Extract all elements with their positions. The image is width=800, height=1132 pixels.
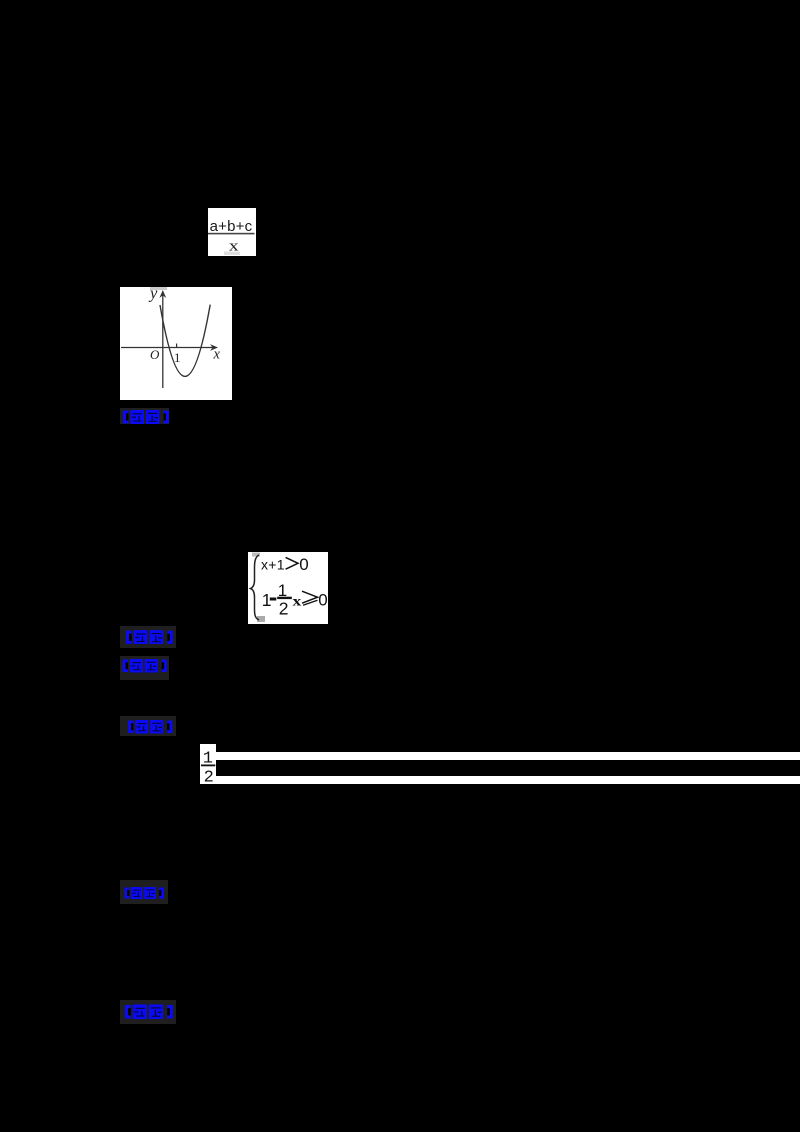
x-axis xyxy=(121,347,215,349)
svg-text:0: 0 xyxy=(318,591,327,610)
blue tag 4 xyxy=(120,716,176,736)
svg-text:0: 0 xyxy=(299,555,308,574)
fraction 1/2 image xyxy=(200,744,216,784)
blue tag 1 xyxy=(120,408,169,425)
svg-text:2: 2 xyxy=(203,768,213,783)
gray smudge xyxy=(224,252,240,256)
svg-text:x: x xyxy=(293,594,302,609)
gray corner smudges xyxy=(252,553,260,557)
parabola xyxy=(160,305,210,377)
svg-text:O: O xyxy=(150,347,160,362)
blue tag 3 xyxy=(120,656,169,680)
gray strip top xyxy=(150,287,167,290)
svg-text:x+1: x+1 xyxy=(261,557,285,573)
y-axis xyxy=(162,293,164,388)
blue tag 5 xyxy=(120,880,169,904)
inequality system image xyxy=(248,552,328,624)
svg-text:a+b+c: a+b+c xyxy=(210,218,253,235)
svg-text:1: 1 xyxy=(174,350,181,365)
svg-text:2: 2 xyxy=(279,599,289,619)
wide white bar top xyxy=(216,752,800,760)
denominator x xyxy=(229,237,239,253)
blue tag 6 xyxy=(120,1000,176,1024)
wide white bar bottom xyxy=(216,776,800,784)
formula image (a+b+c)/x xyxy=(208,208,256,256)
blue tag 2 xyxy=(120,626,176,648)
svg-text:x: x xyxy=(229,237,239,253)
svg-text:x: x xyxy=(213,346,221,362)
left curly brace xyxy=(251,555,260,620)
graph image: parabola with axes xyxy=(120,287,232,400)
hidden defs for blue tag glyph blobs xyxy=(0,0,1,1)
fraction bar xyxy=(208,233,255,235)
svg-text:y: y xyxy=(148,287,158,303)
tick at 1 xyxy=(176,344,178,348)
